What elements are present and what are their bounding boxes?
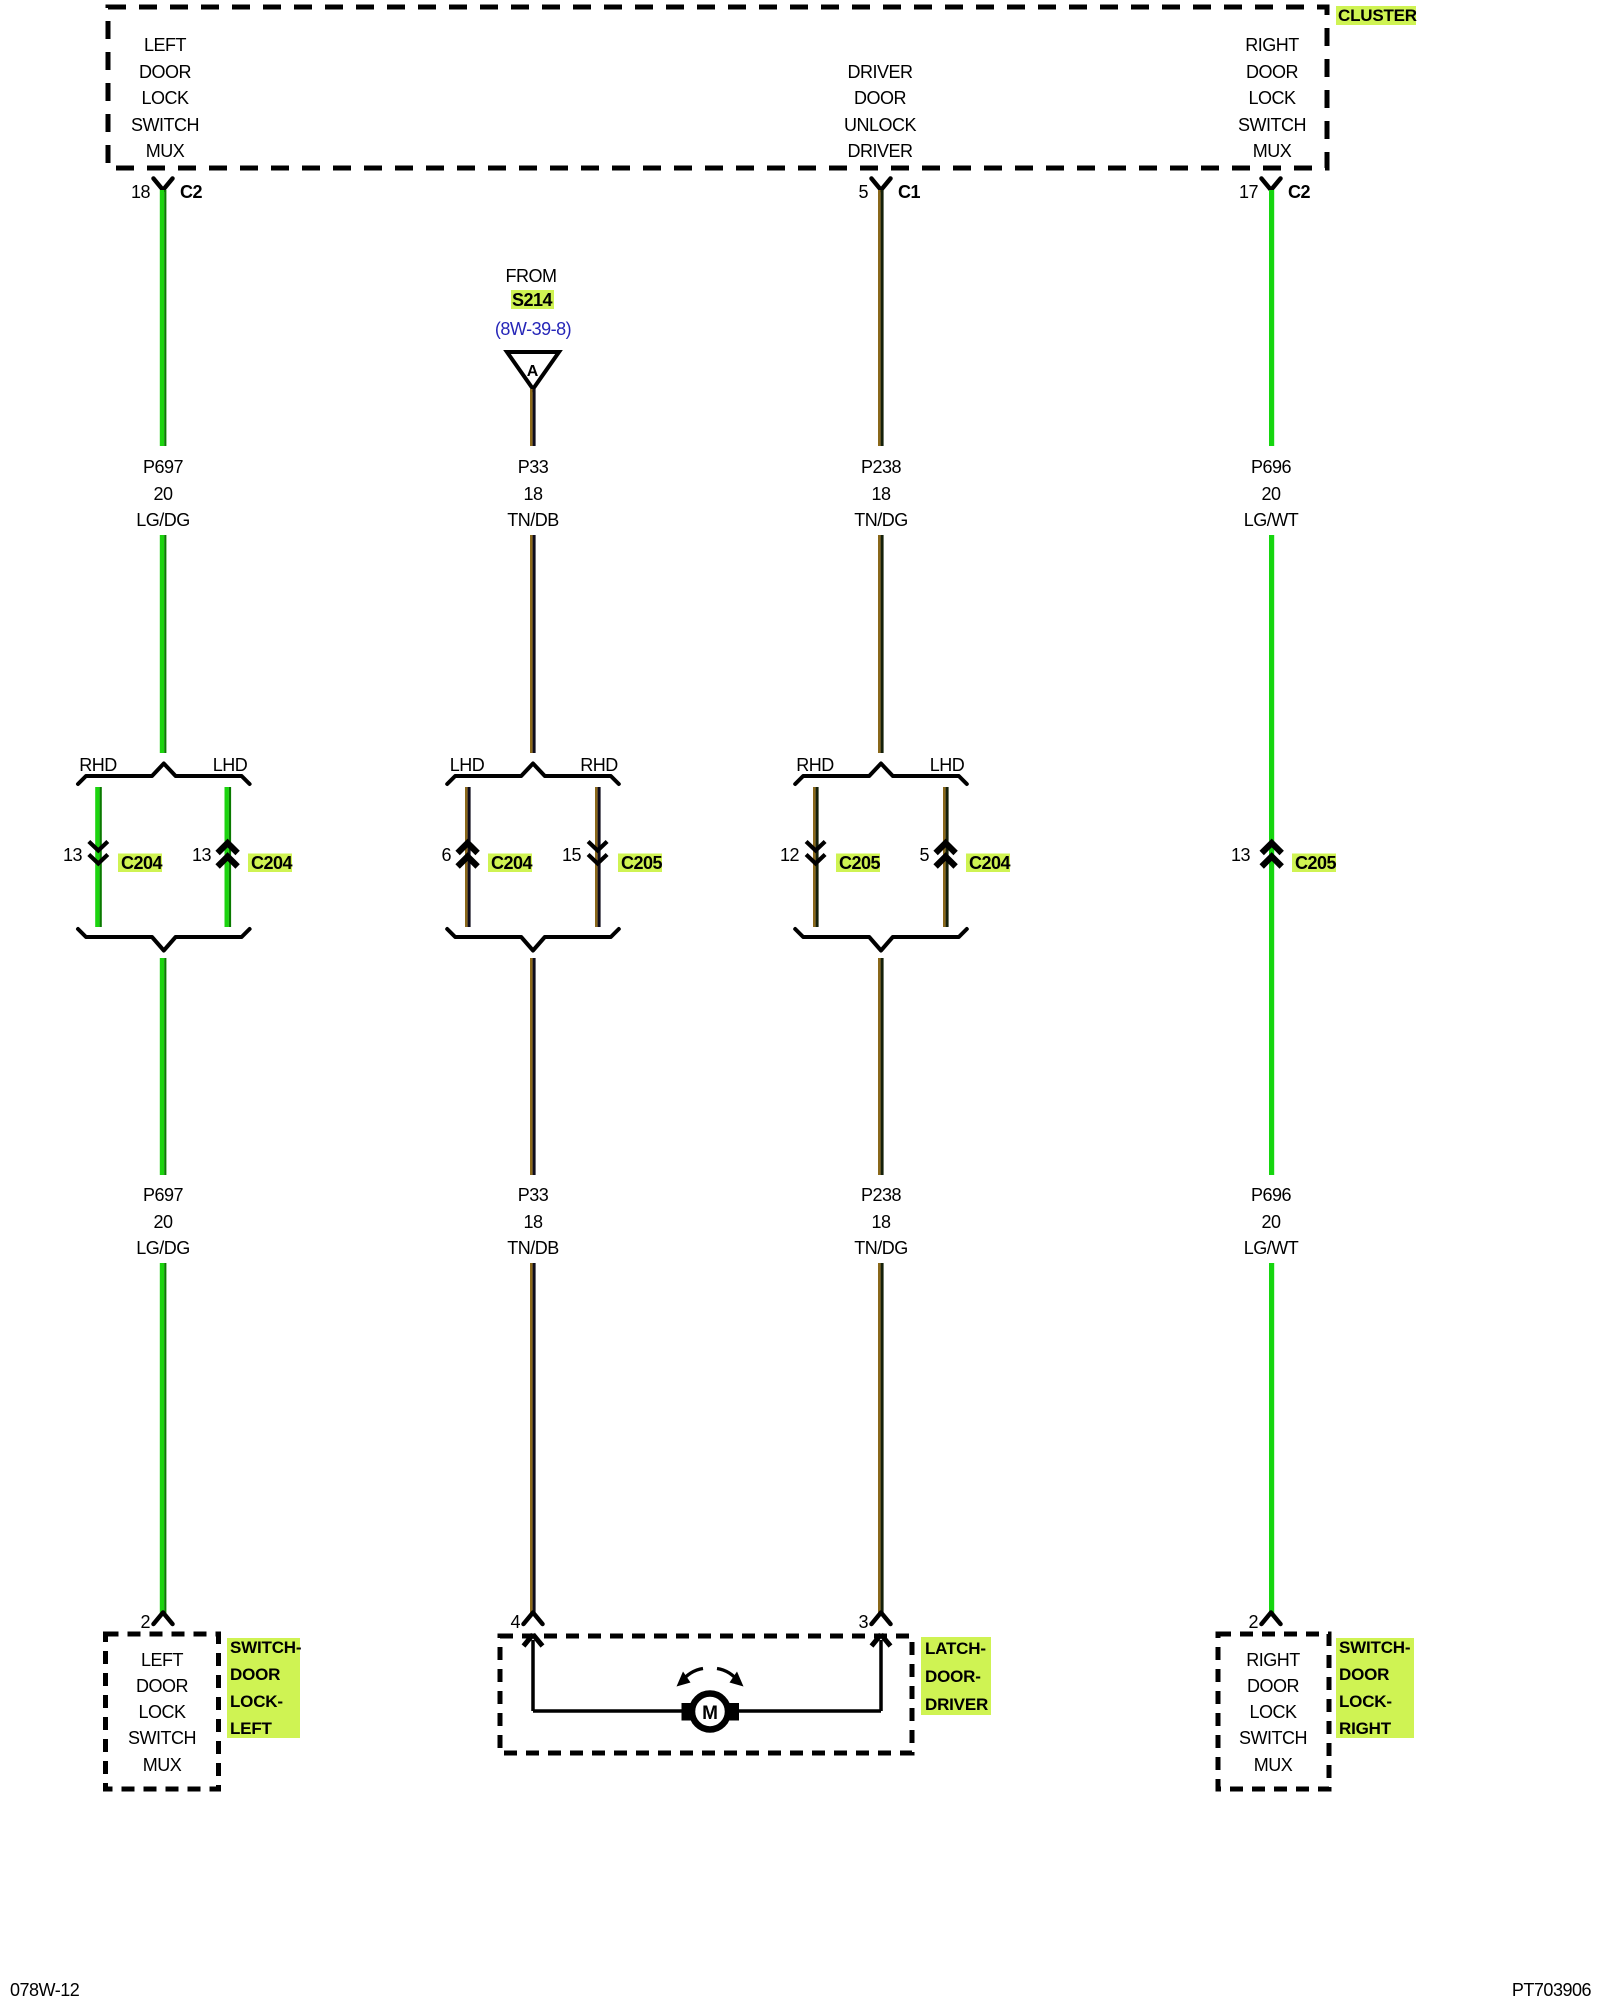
off-page connector triangle A [507,352,559,389]
svg-text:LHD: LHD [213,755,248,775]
svg-text:TN/DB: TN/DB [507,1238,559,1258]
CLUSTER label [1336,6,1416,25]
svg-text:S214: S214 [512,290,553,310]
svg-text:P696: P696 [1251,457,1292,477]
svg-text:C204: C204 [251,853,293,873]
svg-text:LG/WT: LG/WT [1244,510,1299,530]
svg-text:LOCK-: LOCK- [230,1692,283,1711]
svg-text:TN/DG: TN/DG [854,510,908,530]
svg-text:DRIVER: DRIVER [925,1695,988,1714]
splice group 2 bottom brace [447,929,619,951]
svg-text:SWITCH-: SWITCH- [230,1638,301,1657]
svg-text:LOCK-: LOCK- [1339,1692,1392,1711]
wire P238 segment 4 (TN/DG) [878,1263,884,1613]
svg-text:RIGHT: RIGHT [1246,1650,1300,1670]
svg-text:12: 12 [780,845,800,865]
svg-text:MUX: MUX [143,1755,182,1775]
svg-text:DOOR: DOOR [1339,1665,1389,1684]
SWITCH-DOOR LOCK-RIGHT label [1336,1638,1414,1738]
svg-text:20: 20 [1261,484,1281,504]
svg-text:MUX: MUX [146,141,185,161]
svg-text:LEFT: LEFT [230,1719,273,1738]
svg-text:P238: P238 [861,1185,902,1205]
wire P697 segment 3 (LG/DG) [160,958,167,1175]
svg-text:18: 18 [871,1212,891,1232]
motor M [692,1694,728,1730]
svg-text:LG/DG: LG/DG [136,510,190,530]
svg-text:LEFT: LEFT [144,35,187,55]
svg-text:DRIVER: DRIVER [847,141,913,161]
svg-text:DOOR: DOOR [230,1665,280,1684]
svg-text:18: 18 [871,484,891,504]
svg-text:DOOR: DOOR [854,88,907,108]
svg-text:18: 18 [131,182,151,202]
svg-text:FROM: FROM [506,266,557,286]
wire P696 segment 1 (LG/WT) [1269,190,1274,446]
wire latch internal right riser [879,1640,883,1711]
svg-text:C2: C2 [1288,182,1310,202]
svg-text:P33: P33 [518,1185,549,1205]
svg-text:17: 17 [1239,182,1259,202]
svg-text:A: A [527,363,539,380]
svg-text:DOOR: DOOR [1247,1676,1300,1696]
svg-text:13: 13 [1231,845,1251,865]
svg-text:18: 18 [523,484,543,504]
splice group 1 bottom brace [78,929,250,951]
svg-text:TN/DB: TN/DB [507,510,559,530]
wire P697 segment 1 (LG/DG) [160,190,167,446]
wire RHD branch (LG/DG) group 1 [95,787,102,927]
svg-text:C205: C205 [621,853,663,873]
svg-text:LOCK: LOCK [138,1702,186,1722]
wire P33 segment 1 (TN/DB) [530,389,536,446]
splice group 2 top brace [447,764,619,785]
svg-text:2: 2 [140,1612,150,1632]
svg-text:(8W-39-8): (8W-39-8) [495,319,571,339]
svg-text:13: 13 [63,845,83,865]
wire latch internal left riser [531,1640,535,1711]
wire P238 segment 1 (TN/DG) [878,190,884,446]
svg-text:PT703906: PT703906 [1512,1980,1592,2000]
svg-text:RHD: RHD [79,755,117,775]
wire P238 segment 3 (TN/DG) [878,958,884,1175]
switch-door lock-right box [1218,1634,1329,1789]
svg-text:M: M [702,1703,718,1724]
svg-text:DOOR: DOOR [136,1676,189,1696]
svg-text:LATCH-: LATCH- [925,1639,986,1658]
svg-text:LG/DG: LG/DG [136,1238,190,1258]
svg-text:20: 20 [153,1212,173,1232]
svg-text:SWITCH: SWITCH [128,1728,196,1748]
svg-text:UNLOCK: UNLOCK [844,115,917,135]
svg-text:MUX: MUX [1254,1755,1293,1775]
wire P697 segment 2 (LG/DG) [160,535,167,753]
svg-text:TN/DG: TN/DG [854,1238,908,1258]
svg-text:LOCK: LOCK [141,88,189,108]
wire P238 segment 2 (TN/DG) [878,535,884,753]
svg-text:18: 18 [523,1212,543,1232]
switch-door lock-left box [106,1634,219,1789]
wire RHD branch (TN/DB) group 2 [595,787,601,927]
motor M rotation arrows [681,1669,703,1683]
svg-text:LOCK: LOCK [1249,1702,1297,1722]
svg-text:P697: P697 [143,1185,184,1205]
svg-text:RHD: RHD [796,755,834,775]
svg-text:DRIVER: DRIVER [847,62,913,82]
svg-text:RIGHT: RIGHT [1245,35,1299,55]
svg-text:5: 5 [858,182,868,202]
svg-text:P697: P697 [143,457,184,477]
svg-text:LHD: LHD [930,755,965,775]
svg-text:LEFT: LEFT [141,1650,184,1670]
wire P696 segment 4 (LG/WT) [1269,1263,1274,1613]
SWITCH-DOOR LOCK-LEFT label [227,1638,300,1738]
svg-text:6: 6 [441,845,451,865]
svg-text:P696: P696 [1251,1185,1292,1205]
svg-text:DOOR-: DOOR- [925,1667,981,1686]
svg-text:4: 4 [510,1612,520,1632]
svg-text:C204: C204 [491,853,533,873]
svg-text:C204: C204 [969,853,1011,873]
wire P33 segment 2 (TN/DB) [530,535,536,753]
svg-text:20: 20 [153,484,173,504]
svg-text:LOCK: LOCK [1248,88,1296,108]
LATCH-DOOR-DRIVER label [921,1637,991,1715]
svg-text:CLUSTER: CLUSTER [1338,6,1417,25]
svg-text:SWITCH: SWITCH [131,115,199,135]
svg-text:SWITCH-: SWITCH- [1339,1638,1410,1657]
svg-text:20: 20 [1261,1212,1281,1232]
splice group 3 top brace [795,764,967,785]
svg-text:RIGHT: RIGHT [1339,1719,1392,1738]
svg-text:P33: P33 [518,457,549,477]
svg-text:C1: C1 [898,182,920,202]
wire RHD branch (TN/DG) group 3 [813,787,819,927]
wire P33 segment 4 (TN/DB) [530,1263,536,1613]
svg-text:DOOR: DOOR [1246,62,1299,82]
cluster module box [108,7,1327,168]
svg-text:3: 3 [858,1612,868,1632]
wire LHD branch (TN/DB) group 2 [465,787,471,927]
svg-text:LHD: LHD [450,755,485,775]
svg-text:SWITCH: SWITCH [1239,1728,1307,1748]
svg-text:P238: P238 [861,457,902,477]
wire P33 segment 3 (TN/DB) [530,958,536,1175]
wire LHD branch (LG/DG) group 1 [225,787,232,927]
wire P697 segment 4 (LG/DG) [160,1263,167,1613]
svg-text:15: 15 [562,845,582,865]
wire latch internal horizontal [533,1709,881,1712]
svg-text:5: 5 [919,845,929,865]
svg-text:C205: C205 [839,853,881,873]
wire LHD branch (TN/DG) group 3 [943,787,949,927]
svg-text:C205: C205 [1295,853,1337,873]
svg-text:SWITCH: SWITCH [1238,115,1306,135]
svg-text:LG/WT: LG/WT [1244,1238,1299,1258]
latch-door-driver box [500,1636,912,1753]
svg-text:C2: C2 [180,182,202,202]
splice group 3 bottom brace [795,929,967,951]
splice group 1 top brace [78,764,250,785]
svg-text:RHD: RHD [580,755,618,775]
wire P696 segment 2 (LG/WT) [1269,535,1274,1175]
svg-text:DOOR: DOOR [139,62,192,82]
svg-text:13: 13 [192,845,212,865]
svg-text:C204: C204 [121,853,163,873]
svg-text:MUX: MUX [1253,141,1292,161]
svg-text:2: 2 [1248,1612,1258,1632]
svg-text:078W-12: 078W-12 [10,1980,80,2000]
